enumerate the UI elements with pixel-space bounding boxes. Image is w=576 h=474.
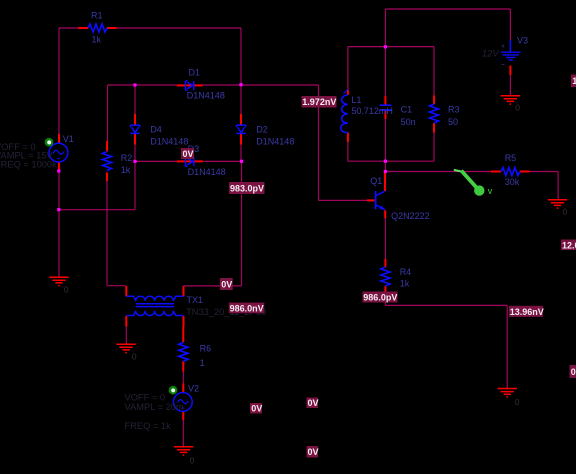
svg-text:D2: D2: [256, 124, 268, 134]
svg-text:1: 1: [200, 358, 205, 368]
svg-text:D1N4148: D1N4148: [150, 136, 188, 146]
svg-text:VAMPL = 20m: VAMPL = 20m: [125, 402, 184, 412]
svg-text:R2: R2: [121, 153, 133, 163]
svg-text:50.712mH: 50.712mH: [351, 106, 393, 116]
svg-text:C1: C1: [401, 105, 413, 115]
svg-text:986.0nV: 986.0nV: [230, 303, 264, 313]
svg-text:D4: D4: [150, 124, 162, 134]
svg-text:0: 0: [190, 456, 195, 466]
svg-text:0: 0: [515, 103, 520, 113]
svg-text:0: 0: [132, 352, 137, 362]
svg-text:V3: V3: [517, 36, 528, 46]
svg-text:0V: 0V: [183, 149, 194, 159]
svg-text:0: 0: [64, 285, 69, 295]
svg-text:v: v: [488, 186, 493, 196]
svg-text:12V: 12V: [482, 49, 499, 59]
svg-text:0: 0: [563, 207, 568, 217]
svg-text:R5: R5: [505, 153, 517, 163]
svg-text:1k: 1k: [121, 165, 131, 175]
svg-text:1.9: 1.9: [572, 76, 576, 86]
svg-text:FREQ = 1000k: FREQ = 1000k: [0, 159, 57, 169]
svg-text:1k: 1k: [400, 278, 410, 288]
svg-text:0V: 0V: [221, 279, 232, 289]
svg-text:L1: L1: [351, 95, 361, 105]
svg-text:V1: V1: [63, 134, 74, 144]
svg-text:1k: 1k: [92, 35, 102, 45]
svg-text:50: 50: [448, 117, 458, 127]
svg-text:FREQ = 1k: FREQ = 1k: [125, 421, 172, 431]
svg-text:R6: R6: [200, 344, 212, 354]
svg-text:R1: R1: [91, 11, 103, 21]
svg-text:0V: 0V: [251, 404, 262, 414]
svg-text:1.972nV: 1.972nV: [302, 97, 336, 107]
svg-text:50n: 50n: [401, 117, 416, 127]
svg-text:13.96nV: 13.96nV: [510, 307, 544, 317]
svg-text:0: 0: [515, 397, 520, 407]
svg-text:D1N4148: D1N4148: [188, 167, 226, 177]
svg-text:D1N4148: D1N4148: [256, 136, 294, 146]
svg-text:R3: R3: [448, 105, 460, 115]
svg-text:0V: 0V: [308, 398, 319, 408]
svg-text:30k: 30k: [505, 177, 520, 187]
svg-text:Q2N2222: Q2N2222: [391, 211, 430, 221]
svg-text:R4: R4: [400, 267, 412, 277]
svg-text:D1N4148: D1N4148: [187, 91, 225, 101]
svg-text:TX1: TX1: [187, 295, 204, 305]
svg-text:0V: 0V: [308, 447, 319, 457]
svg-text:V2: V2: [188, 383, 199, 393]
svg-text:12.0: 12.0: [562, 240, 576, 250]
svg-text:983.0pV: 983.0pV: [230, 183, 264, 193]
svg-text:Q1: Q1: [370, 176, 382, 186]
svg-text:986.0pV: 986.0pV: [363, 293, 397, 303]
svg-text:D1: D1: [189, 68, 201, 78]
svg-text:0V: 0V: [571, 367, 576, 377]
